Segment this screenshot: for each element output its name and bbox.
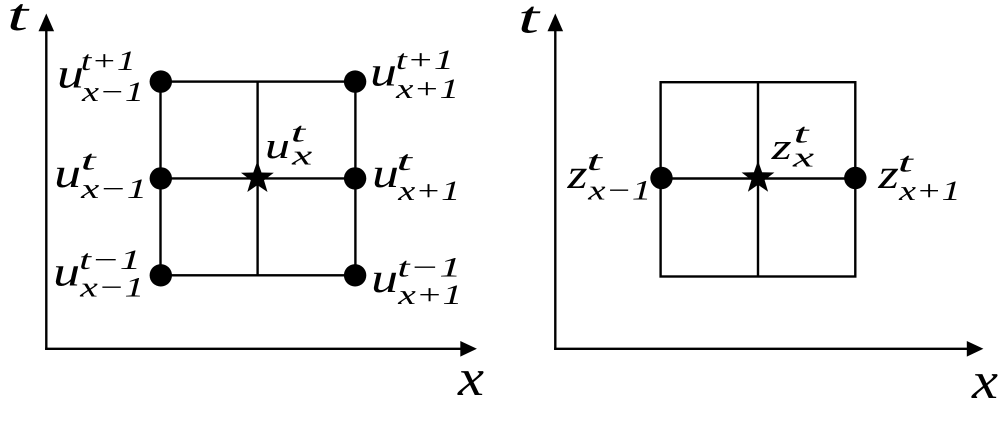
right t-axis arrowhead (548, 14, 564, 32)
svg-text:x+1: x+1 (395, 74, 459, 105)
node dot u(x+1,t-1) (344, 264, 366, 286)
left t-axis line (45, 28, 47, 350)
svg-text:t: t (518, 0, 541, 43)
svg-text:x−1: x−1 (80, 174, 147, 205)
svg-text:u: u (54, 151, 81, 197)
svg-text:t: t (898, 148, 915, 179)
right x-axis arrowhead (967, 341, 984, 357)
svg-text:x: x (290, 141, 313, 172)
node label u(x+1,t+1) (370, 45, 459, 105)
node dot u(x-1,t) (150, 167, 172, 189)
svg-text:u: u (265, 126, 290, 167)
node label u(x,t) (265, 118, 313, 172)
node label z(x+1,t) (877, 148, 961, 207)
svg-text:x+1: x+1 (397, 176, 460, 207)
svg-text:x+1: x+1 (898, 176, 961, 207)
node dot u(x+1,t+1) (344, 70, 366, 92)
node label u(x+1,t) (372, 146, 460, 207)
svg-text:t−1: t−1 (397, 253, 461, 284)
left grid middle horizontal line (161, 177, 356, 179)
svg-text:x−1: x−1 (587, 175, 651, 206)
svg-text:x: x (457, 350, 484, 407)
svg-text:t: t (7, 0, 30, 40)
right grid center vertical line (757, 82, 759, 276)
svg-text:t: t (586, 146, 604, 177)
right x-axis line (554, 348, 968, 350)
left x-axis line (45, 348, 462, 350)
node dot u(x+1,t) (344, 167, 366, 189)
right grid middle horizontal line (661, 177, 856, 179)
left grid square (161, 82, 356, 276)
svg-text:t: t (396, 146, 414, 177)
svg-text:z: z (770, 127, 791, 168)
star marker z(x,t) (742, 161, 775, 192)
node label u(x-1,t) (54, 145, 147, 205)
node dot z(x-1,t) (650, 167, 672, 189)
svg-text:x+1: x+1 (397, 280, 462, 311)
right t-axis line (554, 28, 556, 350)
svg-text:u: u (372, 151, 399, 197)
svg-text:x: x (971, 353, 998, 410)
svg-text:z: z (566, 152, 587, 198)
svg-text:x: x (791, 143, 815, 174)
svg-text:t+1: t+1 (396, 45, 454, 76)
node label u(x-1,t-1) (53, 245, 144, 304)
svg-text:z: z (877, 152, 899, 198)
left grid center vertical line (256, 82, 258, 276)
node label z(x-1,t) (566, 146, 651, 206)
svg-text:x−1: x−1 (81, 77, 144, 108)
svg-text:t−1: t−1 (79, 245, 141, 276)
svg-text:t: t (81, 145, 98, 176)
svg-text:x−1: x−1 (79, 272, 144, 303)
node label u(x-1,t+1) (57, 46, 144, 108)
star marker u(x,t) (241, 161, 274, 192)
svg-text:u: u (371, 256, 398, 302)
svg-text:t+1: t+1 (81, 46, 136, 77)
node dot u(x-1,t+1) (150, 70, 172, 92)
left x-axis arrowhead (460, 341, 477, 357)
left t-axis arrowhead (39, 14, 55, 32)
node dot z(x+1,t) (844, 167, 866, 189)
node label u(x+1,t-1) (371, 253, 462, 312)
svg-text:u: u (53, 249, 80, 295)
node dot u(x-1,t-1) (150, 264, 172, 286)
node label z(x,t) (770, 118, 815, 173)
svg-text:u: u (370, 50, 397, 96)
right grid square (661, 82, 856, 276)
